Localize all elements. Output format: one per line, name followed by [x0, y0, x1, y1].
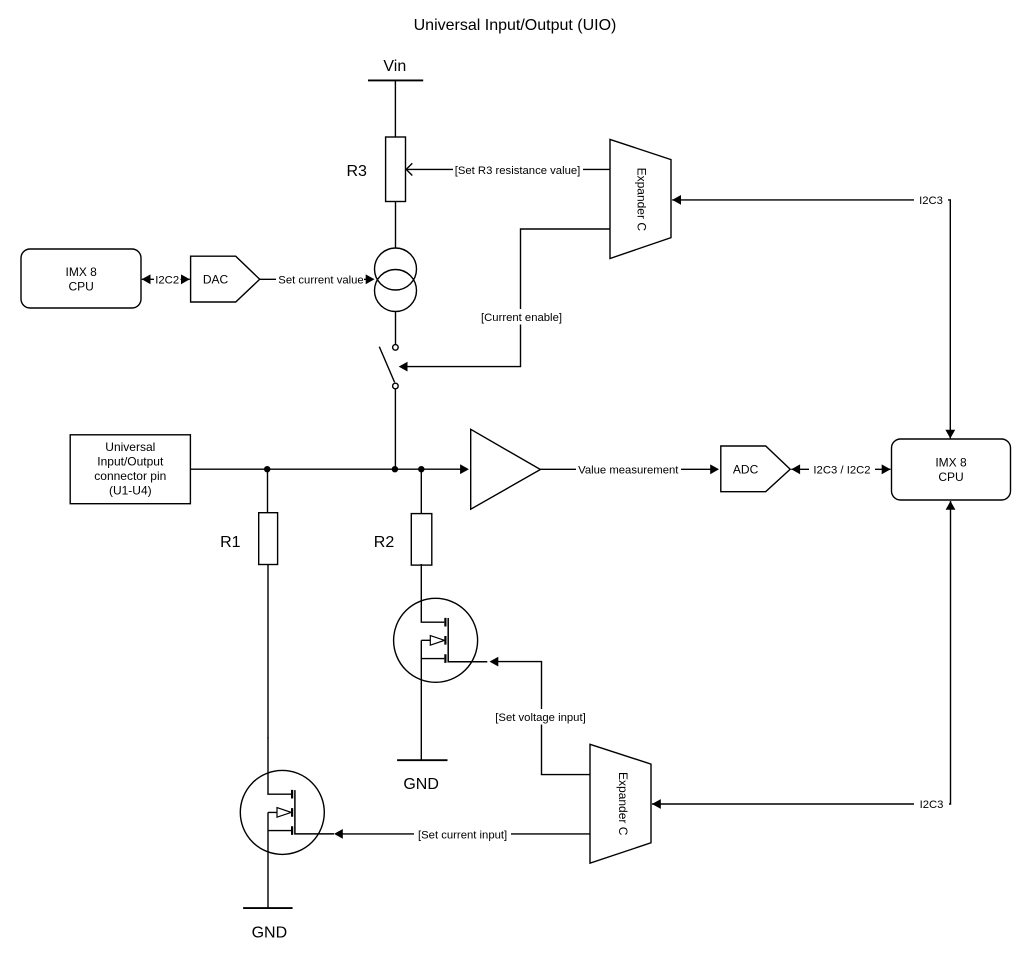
svg-text:Value measurement: Value measurement: [578, 465, 679, 477]
svg-text:(U1-U4): (U1-U4): [109, 484, 152, 498]
svg-text:GND: GND: [252, 924, 288, 941]
svg-text:Universal: Universal: [105, 440, 155, 454]
svg-text:connector pin: connector pin: [94, 469, 166, 483]
svg-text:CPU: CPU: [938, 470, 963, 484]
svg-text:Expander C: Expander C: [616, 772, 630, 836]
svg-text:I2C3: I2C3: [920, 799, 944, 811]
svg-text:IMX 8: IMX 8: [935, 456, 967, 470]
svg-text:DAC: DAC: [203, 272, 229, 286]
svg-text:[Current enable]: [Current enable]: [481, 312, 562, 324]
svg-text:Universal Input/Output (UIO): Universal Input/Output (UIO): [414, 17, 617, 34]
svg-text:R2: R2: [374, 534, 395, 551]
svg-text:Input/Output: Input/Output: [97, 455, 164, 469]
svg-text:Vin: Vin: [383, 58, 406, 75]
svg-text:GND: GND: [403, 776, 439, 793]
svg-text:Set current value: Set current value: [278, 275, 363, 287]
svg-text:R1: R1: [220, 534, 241, 551]
svg-text:[Set voltage input]: [Set voltage input]: [495, 712, 585, 724]
svg-text:I2C3: I2C3: [919, 195, 943, 207]
svg-text:[Set R3 resistance value]: [Set R3 resistance value]: [455, 165, 581, 177]
svg-text:I2C3 / I2C2: I2C3 / I2C2: [813, 465, 870, 477]
svg-text:CPU: CPU: [69, 280, 94, 294]
svg-text:ADC: ADC: [733, 462, 759, 476]
svg-text:Expander C: Expander C: [635, 168, 649, 232]
svg-text:IMX 8: IMX 8: [66, 265, 98, 279]
svg-text:[Set current input]: [Set current input]: [418, 829, 507, 841]
svg-text:I2C2: I2C2: [155, 275, 179, 287]
svg-text:R3: R3: [346, 163, 367, 180]
